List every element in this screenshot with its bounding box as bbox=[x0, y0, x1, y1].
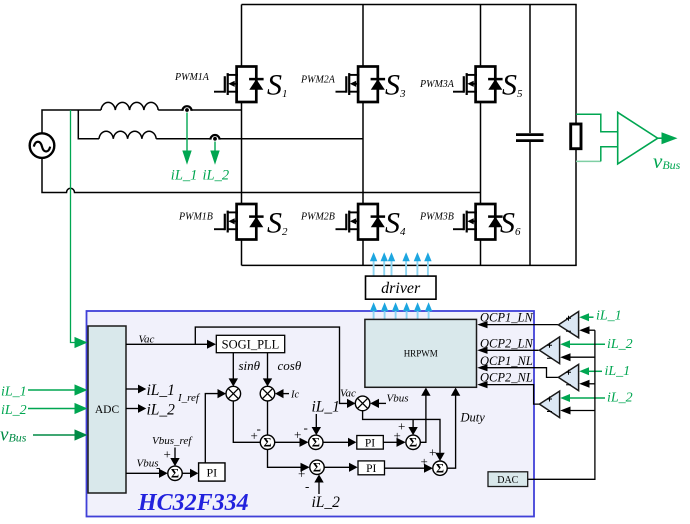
svg-text:Σ: Σ bbox=[436, 462, 444, 476]
svg-text:S2: S2 bbox=[267, 207, 288, 240]
svg-text:iL_1: iL_1 bbox=[147, 382, 175, 399]
arrow vbus output bbox=[658, 137, 663, 139]
wire PI-B to sumB bbox=[385, 467, 425, 469]
svg-text:-: - bbox=[156, 460, 160, 475]
wire leg2 source drop bbox=[362, 240, 364, 266]
wire Vac branch to feedforward bbox=[195, 327, 348, 403]
wire sum1 down to sum3 bbox=[268, 450, 302, 468]
multiplier M3 feedforward bbox=[355, 396, 370, 411]
op-amp vbus sense amplifier bbox=[618, 112, 658, 163]
arrow iL_2 into sum3 bbox=[318, 482, 320, 494]
wire green vac tap from ac line bbox=[71, 110, 77, 343]
svg-text:Vbus: Vbus bbox=[387, 393, 409, 405]
wire OCP1_NL comp3 to hrpwm bbox=[484, 368, 558, 378]
svg-text:cosθ: cosθ bbox=[278, 358, 302, 373]
transistor S6 bbox=[453, 204, 503, 240]
wire M1 to sum1 bbox=[233, 401, 260, 442]
comparator A2 bbox=[539, 337, 559, 364]
svg-text:SOGI_PLL: SOGI_PLL bbox=[222, 337, 280, 351]
arrow comp1 minus bbox=[589, 329, 595, 331]
current sensor CT2 bbox=[210, 135, 219, 140]
svg-text:S1: S1 bbox=[267, 69, 288, 102]
arrow cos out bbox=[267, 353, 269, 380]
arrow iL_1 into sum2 bbox=[315, 414, 317, 428]
wire load branch bottom bbox=[575, 149, 577, 266]
capacitor C1 bbox=[516, 133, 544, 136]
inductor L1 bbox=[101, 102, 158, 110]
svg-text:iL_2: iL_2 bbox=[1, 403, 27, 418]
transistor S2 bbox=[214, 204, 264, 240]
svg-text:HRPWM: HRPWM bbox=[404, 349, 438, 359]
summer S1 bbox=[260, 435, 274, 449]
svg-text:S6: S6 bbox=[500, 207, 521, 240]
wire Vbus adc out bbox=[126, 472, 160, 474]
mcu block HC32F334 outline bbox=[87, 311, 535, 517]
dac block bbox=[488, 472, 528, 487]
arrow sin out bbox=[232, 353, 234, 380]
resistor RL load bbox=[571, 124, 581, 149]
wire green vBus input bbox=[33, 434, 76, 436]
svg-text:Σ: Σ bbox=[409, 436, 417, 450]
wire top rail (DC+) bbox=[242, 4, 577, 6]
svg-text:+: + bbox=[394, 428, 401, 443]
svg-text:OCP1_LN: OCP1_LN bbox=[480, 311, 533, 325]
svg-text:PWM1A: PWM1A bbox=[174, 72, 210, 83]
transistor S4 bbox=[336, 204, 386, 240]
svg-text:PI: PI bbox=[206, 466, 217, 480]
sogi block SOGI_PLL bbox=[216, 335, 284, 352]
wire sum2 to PI-A bbox=[323, 441, 349, 443]
svg-text:Duty: Duty bbox=[460, 411, 486, 425]
arrow comp4 minus bbox=[570, 410, 595, 412]
svg-text:Σ: Σ bbox=[313, 461, 321, 475]
svg-text:Σ: Σ bbox=[171, 467, 179, 481]
wire leg3 source drop bbox=[480, 240, 482, 266]
arrow comp3 minus bbox=[589, 383, 595, 385]
svg-text:iL_1: iL_1 bbox=[171, 168, 198, 184]
wire branch down to L2 bbox=[78, 110, 99, 139]
wire sensor2 to leg2 bbox=[218, 138, 363, 140]
svg-text:PWM3B: PWM3B bbox=[419, 212, 454, 223]
wire capacitor branch bottom bbox=[529, 142, 531, 265]
arrow comp2 minus bbox=[570, 356, 595, 358]
svg-text:sinθ: sinθ bbox=[239, 358, 261, 373]
svg-text:-: - bbox=[257, 421, 261, 436]
svg-text:vBus: vBus bbox=[0, 425, 27, 446]
multiplier M1 bbox=[226, 386, 241, 401]
wire ac bottom lead with hop over green line bbox=[42, 158, 481, 193]
svg-text:iL_1: iL_1 bbox=[605, 364, 631, 379]
wire M3 branch to sumA bbox=[412, 419, 414, 427]
wire green iL_2 input bbox=[28, 408, 76, 410]
wire OCP2_LN comp2 to hrpwm bbox=[484, 349, 539, 351]
arrows driver to gates (cyan) bbox=[370, 252, 432, 276]
wire sum3 to PI-B bbox=[324, 466, 349, 468]
svg-text:+: + bbox=[164, 447, 171, 462]
comparator A1 bbox=[558, 312, 578, 338]
arrow iL_1 adc out bbox=[126, 388, 139, 390]
wire leg3 midpoint bbox=[480, 102, 482, 204]
comparator A3 bbox=[558, 364, 578, 390]
wire L2 to sensor2 bbox=[156, 138, 211, 140]
ac source V1 bbox=[30, 133, 55, 158]
arrow Ic into M2 bbox=[283, 393, 289, 395]
svg-text:vBus: vBus bbox=[653, 149, 681, 173]
transistor S3 bbox=[336, 67, 386, 103]
wire green iL_1 input bbox=[28, 389, 76, 391]
driver box bbox=[366, 276, 437, 299]
svg-text:iL_2: iL_2 bbox=[147, 402, 176, 419]
pi block PI-V bbox=[199, 463, 225, 481]
wire L1 to sensor1 bbox=[158, 109, 183, 111]
svg-text:+: + bbox=[294, 427, 301, 442]
wire OCP2_NL comp4 to hrpwm bbox=[484, 385, 539, 405]
arrow iL_2 comp4 bbox=[569, 397, 605, 399]
summer S2 bbox=[309, 435, 323, 449]
svg-text:Vbus_ref: Vbus_ref bbox=[152, 435, 193, 447]
svg-text:HC32F334: HC32F334 bbox=[137, 490, 249, 516]
svg-text:-: - bbox=[305, 479, 309, 494]
pi block PI-B bbox=[358, 461, 385, 475]
svg-text:S5: S5 bbox=[502, 69, 523, 102]
summer SA bbox=[406, 435, 420, 449]
wire leg2 drain drop bbox=[362, 5, 364, 67]
arrow Vbus into M3 bbox=[379, 402, 387, 404]
arrow iL_1 comp3 bbox=[588, 370, 602, 372]
svg-text:Vac: Vac bbox=[139, 334, 155, 346]
wire leg1 source drop bbox=[241, 240, 243, 266]
svg-text:I_ref: I_ref bbox=[177, 392, 201, 404]
svg-text:-: - bbox=[304, 420, 308, 435]
summer SV voltage loop bbox=[168, 466, 182, 480]
wire bottom rail (DC-) bbox=[242, 264, 577, 266]
wire load branch top bbox=[575, 5, 577, 125]
svg-text:Vac: Vac bbox=[340, 388, 356, 400]
wire leg3 drain drop bbox=[480, 5, 482, 67]
svg-text:iL_1: iL_1 bbox=[596, 309, 622, 324]
wire M3 to sums bbox=[363, 411, 440, 453]
arrow M2 to sum1 top bbox=[267, 401, 269, 435]
svg-text:Σ: Σ bbox=[263, 436, 271, 450]
arrow iL_1 comp1 bbox=[588, 316, 594, 318]
hrpwm block bbox=[365, 319, 477, 387]
wire capacitor branch top bbox=[529, 5, 531, 134]
wire leg1 midpoint bbox=[241, 102, 243, 204]
comparator A4 bbox=[539, 391, 559, 418]
svg-text:PI: PI bbox=[365, 438, 375, 450]
multiplier M2 bbox=[260, 386, 275, 401]
wire sumA to hrpwm bbox=[420, 396, 426, 443]
summer S3 bbox=[310, 460, 324, 474]
svg-text:PI: PI bbox=[366, 463, 376, 475]
wire sensor1 to leg1 bbox=[190, 109, 241, 111]
transistor S1 bbox=[214, 67, 264, 103]
wire PI-A to sumA bbox=[383, 441, 397, 443]
arrow iL_2 adc out bbox=[126, 408, 139, 410]
svg-text:PWM2B: PWM2B bbox=[300, 212, 335, 223]
svg-text:S4: S4 bbox=[385, 207, 406, 240]
svg-text:iL_2: iL_2 bbox=[312, 494, 341, 511]
svg-text:+: + bbox=[421, 454, 428, 469]
wire sum1 to sum2 bbox=[275, 441, 300, 443]
arrow iL_2 comp2 bbox=[569, 343, 605, 345]
svg-text:PWM3A: PWM3A bbox=[419, 79, 455, 90]
svg-text:Ic: Ic bbox=[290, 390, 299, 401]
svg-text:PWM2A: PWM2A bbox=[300, 75, 336, 86]
svg-text:ADC: ADC bbox=[95, 404, 120, 416]
svg-text:OCP2_LN: OCP2_LN bbox=[480, 337, 533, 351]
svg-text:+: + bbox=[429, 445, 436, 460]
wire OCP1_LN comp1 to hrpwm bbox=[484, 324, 558, 326]
wire leg1 drain drop bbox=[241, 5, 243, 67]
wire sumB to hrpwm bbox=[447, 396, 455, 469]
svg-text:iL_1: iL_1 bbox=[1, 385, 27, 400]
svg-text:iL_2: iL_2 bbox=[203, 168, 230, 184]
current sensor CT1 bbox=[182, 106, 191, 111]
inductor L2 bbox=[99, 131, 156, 139]
summer SB bbox=[433, 461, 447, 475]
wire vbus sense lower tap bbox=[576, 160, 601, 162]
wire Vac adc to sogi bbox=[126, 343, 208, 345]
wire I_ref from PI-V to mult1 bbox=[205, 394, 219, 463]
wire dac threshold bus bbox=[528, 330, 595, 479]
adc block U-ADC bbox=[88, 326, 126, 493]
svg-text:OCP1_NL: OCP1_NL bbox=[480, 354, 533, 368]
arrow Vbus_ref down bbox=[174, 448, 176, 459]
arrow iL_2 sense bbox=[214, 142, 216, 152]
svg-text:OCP2_NL: OCP2_NL bbox=[480, 371, 533, 385]
svg-text:PWM1B: PWM1B bbox=[178, 212, 213, 223]
arrow iL_1 sense bbox=[186, 113, 188, 152]
svg-text:driver: driver bbox=[381, 280, 421, 297]
svg-text:iL_1: iL_1 bbox=[312, 399, 340, 416]
wire ac top lead bbox=[42, 110, 101, 133]
wire leg2 midpoint bbox=[362, 102, 364, 204]
svg-text:iL_2: iL_2 bbox=[607, 391, 633, 406]
pi block PI-A bbox=[357, 436, 384, 450]
transistor S5 bbox=[453, 67, 503, 103]
svg-text:iL_2: iL_2 bbox=[607, 337, 633, 352]
arrows hrpwm to driver (cyan) bbox=[370, 302, 432, 319]
arrow sumV to PI-V bbox=[182, 472, 190, 474]
svg-text:S3: S3 bbox=[385, 69, 406, 102]
svg-text:Σ: Σ bbox=[312, 436, 320, 450]
wire vbus sense upper tap bbox=[576, 114, 617, 132]
svg-text:DAC: DAC bbox=[497, 475, 518, 486]
